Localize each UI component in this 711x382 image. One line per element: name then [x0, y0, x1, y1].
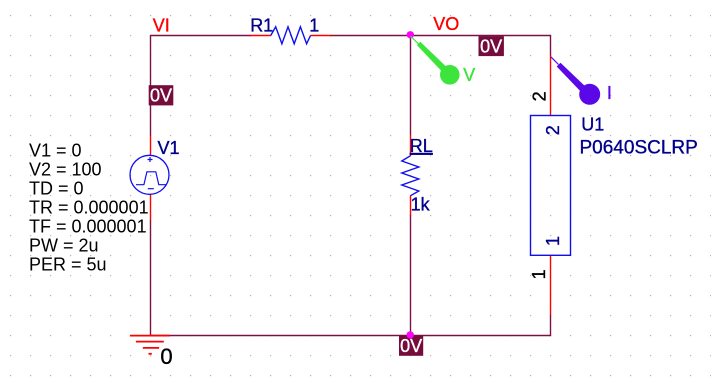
- svg-text:1: 1: [529, 269, 549, 279]
- svg-text:I: I: [607, 83, 612, 103]
- svg-text:2: 2: [529, 91, 549, 101]
- svg-text:TF = 0.000001: TF = 0.000001: [29, 217, 147, 237]
- svg-text:0V: 0V: [480, 36, 502, 56]
- svg-text:R1: R1: [250, 16, 273, 36]
- bias label 0V on left wire: [149, 85, 174, 105]
- current probe marker (purple) at U1 pin 2: [551, 57, 612, 105]
- svg-text:V1: V1: [158, 138, 180, 158]
- ground symbol: [130, 336, 170, 354]
- voltage source V1 pulse waveform: [136, 172, 166, 185]
- resistor R1 zigzag: [271, 27, 311, 44]
- wire bottom: ground to right corner: [150, 335, 551, 337]
- U1 pin 1 (bottom, red): [550, 255, 552, 315]
- svg-text:0V: 0V: [400, 336, 422, 356]
- svg-text:U1: U1: [581, 114, 604, 134]
- svg-text:0V: 0V: [150, 85, 172, 105]
- voltage probe marker (green) at VO: [411, 36, 476, 85]
- wire right vertical: U1 pin 1 to bottom corner: [550, 315, 552, 337]
- voltage source V1 minus mark: [148, 188, 154, 190]
- resistor R1 pin left: [250, 35, 271, 37]
- svg-text:1: 1: [309, 16, 319, 36]
- svg-text:TD = 0: TD = 0: [29, 179, 84, 199]
- U1 body rectangle: [531, 116, 571, 256]
- svg-text:1k: 1k: [411, 194, 431, 214]
- svg-text:V1 = 0: V1 = 0: [29, 141, 82, 161]
- resistor RL pin top: [410, 135, 412, 156]
- svg-text:V2 = 100: V2 = 100: [29, 160, 102, 180]
- svg-text:VI: VI: [153, 15, 170, 35]
- junction dot at VO node: [407, 31, 414, 38]
- resistor R1 pin right: [311, 35, 332, 37]
- wire top: R1 to corner at x=550: [330, 35, 551, 37]
- voltage source V1 pin top: [150, 136, 152, 156]
- svg-text:P0640SCLRP: P0640SCLRP: [580, 138, 698, 159]
- U1 pin 2 (top, red): [550, 55, 552, 115]
- voltage source V1 circle: [130, 155, 169, 194]
- svg-text:PW = 2u: PW = 2u: [29, 236, 99, 256]
- wire right vertical: corner to U1 pin 2: [550, 35, 552, 56]
- voltage source V1 pin bottom: [150, 194, 152, 220]
- resistor RL zigzag: [402, 156, 419, 196]
- bias label 0V top right: [479, 36, 504, 56]
- wire middle vertical: VO node to RL: [410, 35, 412, 135]
- svg-text:TR = 0.000001: TR = 0.000001: [29, 198, 149, 218]
- resistor RL pin bottom: [410, 196, 412, 216]
- svg-text:0: 0: [160, 344, 172, 369]
- voltage source V1 plus mark: [148, 157, 153, 162]
- svg-text:V: V: [463, 65, 475, 85]
- wire left vertical: V1 to ground: [150, 220, 152, 336]
- svg-text:PER = 5u: PER = 5u: [29, 255, 107, 275]
- junction dot at bottom node: [407, 331, 414, 338]
- svg-text:1: 1: [543, 236, 563, 246]
- svg-text:2: 2: [543, 125, 563, 135]
- V1 parameters text block: [29, 141, 149, 275]
- svg-text:VO: VO: [433, 14, 459, 34]
- svg-text:RL: RL: [410, 136, 433, 156]
- wire middle vertical: RL to bottom node: [410, 215, 412, 336]
- wire left vertical: VI node down to V1: [150, 35, 152, 136]
- bias label 0V bottom: [399, 336, 423, 356]
- wire top: VI node to R1: [150, 35, 251, 37]
